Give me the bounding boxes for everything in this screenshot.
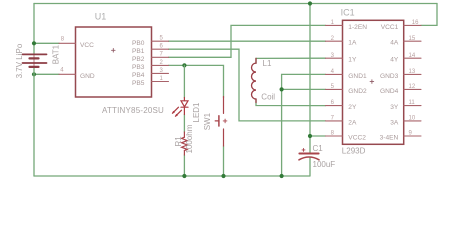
svg-text:100uF: 100uF [313, 160, 336, 169]
svg-text:4A: 4A [390, 40, 399, 47]
svg-text:2Y: 2Y [348, 104, 357, 111]
pin U1 PB2 pin 7 [152, 56, 169, 58]
svg-text:GND4: GND4 [380, 88, 399, 95]
pin U1 PB3 pin 2 [152, 64, 169, 66]
pin U1 PB1 pin 6 [152, 48, 169, 50]
svg-text:3-4EN: 3-4EN [380, 135, 399, 142]
svg-text:16: 16 [412, 20, 419, 26]
node battery minus junction [32, 72, 36, 76]
pin IC1 3-4EN pin 9 [404, 135, 421, 137]
svg-text:L1: L1 [263, 59, 272, 68]
wire battery minus riser to ground rail [33, 67, 35, 176]
pin U1 PB0 pin 5 [152, 40, 169, 42]
wire GND from battery minus to U1 pin4 [34, 73, 59, 75]
wire GND2 to ground riser [282, 88, 326, 90]
wire ground bottom rail [34, 175, 310, 177]
wire battery plus riser [33, 4, 35, 55]
wire GND1 to ground riser [282, 74, 326, 176]
pin IC1 3A pin 10 [404, 120, 421, 122]
wire VCC to U1 pin8 [34, 42, 59, 44]
svg-text:15: 15 [409, 36, 416, 42]
wire resistor to ground rail [183, 155, 185, 176]
svg-text:13: 13 [409, 69, 416, 75]
battery BAT1 [23, 54, 47, 67]
svg-text:L293D: L293D [342, 146, 366, 155]
svg-text:12: 12 [409, 84, 416, 90]
inductor L1 [252, 58, 256, 102]
svg-text:10: 10 [409, 116, 416, 122]
svg-text:PB3: PB3 [132, 64, 145, 71]
pin IC1 1-2EN pin 1 [326, 24, 343, 26]
svg-text:U1: U1 [95, 11, 107, 21]
svg-text:GND2: GND2 [348, 88, 367, 95]
svg-text:PB2: PB2 [132, 56, 145, 63]
pin IC1 4Y pin 14 [404, 57, 421, 59]
wire C1 bottom to ground rail [309, 158, 311, 176]
svg-text:BAT1: BAT1 [51, 44, 60, 64]
node GND riser junction [280, 87, 284, 91]
wire VCC1 pin16 to top rail [421, 4, 437, 26]
capacitor C1 [299, 148, 319, 159]
wire PB1 to 2A [169, 49, 326, 121]
pin IC1 VCC1 pin 16 [404, 24, 421, 26]
wire LED cathode to resistor [183, 115, 185, 133]
wire VCC2 riser from top rail [309, 4, 311, 154]
svg-text:Coil: Coil [261, 92, 275, 101]
pin IC1 GND2 pin 5 [326, 88, 343, 90]
svg-text:100ohm: 100ohm [185, 124, 194, 153]
pin U1 PB5 pin 1 [152, 81, 169, 83]
origin cross U1 [112, 49, 116, 53]
svg-text:PB0: PB0 [132, 40, 145, 47]
svg-text:SW1: SW1 [203, 112, 212, 130]
LED LED1 [172, 98, 188, 117]
svg-text:PB5: PB5 [132, 80, 145, 87]
svg-text:C1: C1 [313, 144, 324, 153]
node PB3 LED branch junction [182, 63, 186, 67]
pin U1 PB4 pin 3 [152, 72, 169, 74]
svg-text:GND: GND [80, 73, 95, 80]
pin IC1 2Y pin 6 [326, 105, 343, 107]
svg-text:4Y: 4Y [390, 57, 399, 64]
wire VCC2 tap to pin8 [310, 135, 326, 137]
svg-text:VCC: VCC [80, 42, 94, 49]
svg-text:R1: R1 [174, 136, 183, 147]
svg-text:3.7V LiPo: 3.7V LiPo [15, 43, 24, 78]
node GND riser to rail junction [280, 174, 284, 178]
wire PB0 to 1A [169, 40, 326, 42]
pin IC1 GND3 pin 13 [404, 73, 421, 75]
svg-text:11: 11 [409, 100, 416, 106]
pin IC1 GND4 pin 12 [404, 88, 421, 90]
IC IC1 box [343, 20, 404, 144]
pin IC1 1A pin 2 [326, 40, 343, 42]
wire coil bottom to 2Y [256, 99, 326, 106]
svg-text:3Y: 3Y [390, 104, 399, 111]
node resistor ground junction [182, 174, 186, 178]
svg-text:VCC1: VCC1 [381, 24, 399, 31]
pin IC1 4A pin 15 [404, 40, 421, 42]
svg-text:IC1: IC1 [341, 7, 355, 17]
pin IC1 3Y pin 11 [404, 105, 421, 107]
pin U1 GND pin 4 [59, 73, 76, 75]
node switch ground junction [221, 174, 225, 178]
wire PB3 to switch [169, 65, 224, 97]
svg-text:PB1: PB1 [132, 48, 145, 55]
svg-text:ATTINY85-20SU: ATTINY85-20SU [102, 106, 164, 115]
svg-text:VCC2: VCC2 [348, 135, 366, 142]
switch SW1 [215, 97, 227, 147]
wire VCC top rail [34, 3, 437, 5]
svg-text:PB4: PB4 [132, 72, 145, 79]
svg-text:2A: 2A [348, 119, 357, 126]
wire coil top horizontal [256, 57, 326, 59]
pin IC1 VCC2 pin 8 [326, 135, 343, 137]
wire coil top to 1Y [255, 58, 257, 63]
pin IC1 1Y pin 3 [326, 57, 343, 59]
svg-text:LED1: LED1 [192, 102, 201, 123]
IC U1 box [76, 27, 152, 97]
pin IC1 2A pin 7 [326, 120, 343, 122]
pin IC1 GND1 pin 4 [326, 73, 343, 75]
node VCC2 tap junction [308, 134, 312, 138]
wire PB3 branch down to LED [183, 65, 185, 97]
svg-text:1-2EN: 1-2EN [348, 24, 367, 31]
svg-text:14: 14 [409, 53, 416, 59]
node battery plus junction [32, 41, 36, 45]
origin cross IC1 [370, 80, 374, 84]
svg-text:1A: 1A [348, 40, 357, 47]
node VCC2 riser top junction [308, 1, 312, 5]
wire switch to ground rail [223, 146, 225, 176]
svg-text:GND3: GND3 [380, 73, 399, 80]
wire PB2 to 1-2EN [169, 25, 326, 57]
resistor R1 [182, 132, 188, 155]
pin U1 VCC pin 8 [59, 42, 76, 44]
svg-text:GND1: GND1 [348, 73, 367, 80]
svg-text:3A: 3A [390, 119, 399, 126]
svg-text:1Y: 1Y [348, 57, 357, 64]
